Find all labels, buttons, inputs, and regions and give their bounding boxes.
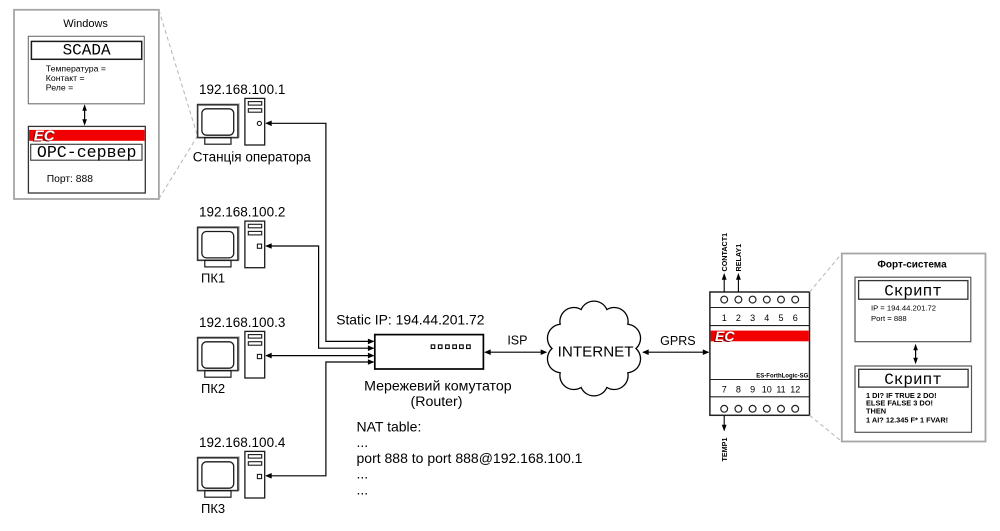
svg-text:10: 10 [762, 384, 772, 394]
svg-text:4: 4 [764, 313, 769, 323]
dashed callout line top right [810, 254, 842, 293]
script group box A [855, 277, 971, 342]
svg-text:1: 1 [722, 313, 727, 323]
system unit tower [245, 221, 265, 268]
svg-text:port 888 to port 888@192.168.1: port 888 to port 888@192.168.100.1 [357, 450, 583, 466]
svg-text:Скрипт: Скрипт [884, 282, 942, 300]
EC red banner [29, 130, 145, 141]
svg-text:Static IP: 194.44.201.72: Static IP: 194.44.201.72 [336, 312, 485, 328]
svg-text:NAT table:: NAT table: [357, 419, 422, 435]
svg-text:ES-ForthLogic-SG: ES-ForthLogic-SG [756, 374, 808, 380]
svg-text:...: ... [357, 466, 369, 482]
OPC server box [28, 126, 145, 193]
svg-text:Реле =: Реле = [46, 83, 73, 93]
svg-text:ПК3: ПК3 [201, 501, 225, 516]
SCADA box [31, 41, 141, 59]
SCADA group box [28, 36, 144, 104]
svg-text:2: 2 [736, 313, 741, 323]
svg-text:9: 9 [750, 384, 755, 394]
svg-text:OPC-сервер: OPC-сервер [37, 143, 137, 162]
svg-text:(Router): (Router) [410, 394, 462, 410]
wire PC3 to router [266, 362, 373, 476]
svg-text:IP = 194.44.201.72: IP = 194.44.201.72 [871, 304, 936, 313]
svg-text:Контакт =: Контакт = [46, 73, 85, 83]
svg-text:TEMP1: TEMP1 [720, 438, 729, 462]
script box B [859, 369, 968, 387]
router LED squares [431, 345, 470, 349]
wire PC1 to router [266, 246, 373, 348]
svg-text:...: ... [357, 481, 369, 497]
ISP link arrow [484, 349, 547, 355]
svg-text:Температура =: Температура = [46, 63, 106, 73]
Windows software box [14, 10, 159, 199]
controller device body [710, 292, 810, 415]
svg-text:Windows: Windows [63, 18, 108, 30]
top terminal circles [721, 296, 799, 303]
TEMP1 arrow [722, 415, 727, 431]
bottom terminal circles [721, 405, 799, 412]
monitor [197, 227, 239, 267]
script box A [859, 281, 968, 300]
svg-text:192.168.100.2: 192.168.100.2 [199, 205, 285, 220]
RELAY1 arrow [736, 273, 741, 292]
svg-text:192.168.100.1: 192.168.100.1 [199, 82, 285, 97]
svg-text:Порт: 888: Порт: 888 [47, 174, 94, 185]
svg-text:Port = 888: Port = 888 [871, 314, 907, 323]
monitor [197, 337, 239, 377]
OPC-server box [31, 144, 142, 160]
top terminal separator [710, 307, 810, 309]
bottom terminal numbers [722, 384, 801, 394]
wire PC2 to router [266, 355, 373, 357]
system unit tower [245, 98, 265, 145]
svg-text:CONTACT1: CONTACT1 [720, 233, 729, 272]
script B code lines [866, 391, 948, 425]
svg-text:ПК1: ПК1 [201, 271, 225, 286]
svg-text:12: 12 [790, 384, 800, 394]
svg-text:Мережевий комутатор: Мережевий комутатор [364, 379, 512, 395]
svg-text:SCADA: SCADA [63, 41, 111, 59]
top terminal numbers [722, 313, 798, 323]
arrow SCADA to OPC server [82, 104, 87, 126]
Fort system box [842, 254, 986, 442]
svg-text:5: 5 [778, 313, 783, 323]
INTERNET cloud [547, 301, 640, 396]
svg-text:192.168.100.4: 192.168.100.4 [199, 435, 286, 450]
wire operator station to router [266, 123, 373, 341]
svg-text:THEN: THEN [866, 406, 886, 415]
svg-text:EC: EC [715, 328, 735, 344]
svg-text:GPRS: GPRS [660, 334, 695, 348]
svg-text:ПК2: ПК2 [201, 381, 225, 396]
monitor [197, 104, 239, 144]
svg-text:Станція оператора: Станція оператора [193, 149, 312, 164]
arrow between scripts [913, 344, 918, 365]
arrowheads into router [368, 339, 375, 345]
svg-text:Форт-система: Форт-система [877, 259, 947, 270]
svg-text:ISP: ISP [507, 333, 527, 347]
router box [375, 335, 484, 369]
svg-text:3: 3 [750, 313, 755, 323]
dashed callout line bottom right [810, 415, 842, 441]
svg-text:1 AI? 12.345 F* 1 FVAR!: 1 AI? 12.345 F* 1 FVAR! [866, 415, 948, 424]
svg-text:...: ... [357, 434, 369, 450]
script group box B [855, 366, 972, 432]
svg-text:192.168.100.3: 192.168.100.3 [199, 315, 285, 330]
svg-text:8: 8 [736, 384, 741, 394]
GPRS link arrow [642, 349, 709, 355]
arrowheads into towers [265, 121, 272, 127]
dashed callout line bottom [159, 136, 198, 199]
system unit tower [245, 451, 265, 498]
svg-text:6: 6 [793, 313, 798, 323]
svg-text:7: 7 [722, 384, 727, 394]
svg-text:INTERNET: INTERNET [558, 343, 634, 360]
monitor [197, 457, 239, 497]
device red EC banner [711, 331, 809, 342]
svg-text:RELAY1: RELAY1 [734, 244, 743, 272]
system unit tower [245, 331, 265, 378]
svg-text:11: 11 [776, 384, 785, 394]
CONTACT1 arrow [722, 273, 727, 292]
dashed callout line top [159, 10, 198, 136]
svg-text:Скрипт: Скрипт [884, 371, 942, 389]
